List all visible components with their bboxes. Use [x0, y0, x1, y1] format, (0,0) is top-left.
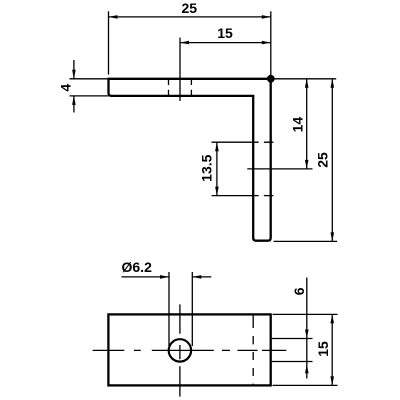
flange hole hidden top edge y=142.2	[212, 141, 274, 143]
dimension 6 (plan, right)	[291, 278, 309, 379]
svg-text:25: 25	[315, 152, 331, 168]
flange hole centerline y=168.9	[247, 168, 312, 170]
svg-text:Ø6.2: Ø6.2	[122, 259, 153, 275]
corner junction dot	[267, 75, 275, 83]
hidden hole edge left (side view)	[168, 79, 170, 96]
svg-text:6: 6	[291, 287, 307, 295]
dimension 14 (right of side view)	[290, 79, 309, 169]
extension line right corner (horizontal, to right dims)	[271, 78, 336, 80]
svg-text:14: 14	[290, 117, 306, 133]
svg-text:4: 4	[58, 84, 74, 92]
hole (plan view)	[169, 339, 191, 361]
svg-text:13.5: 13.5	[199, 154, 215, 181]
extension line plate bottom (plan, right)	[273, 384, 338, 386]
extension line hole top edge (plan, right)	[272, 338, 313, 340]
flange hole hidden bottom edge y=195.6	[212, 195, 274, 197]
dimension 15 (plan, right)	[315, 314, 334, 385]
extension line plate top (plan, right)	[273, 313, 338, 315]
dimension 25 (right height)	[315, 79, 335, 242]
bracket outline (side view L-profile)	[109, 79, 271, 241]
extension line flange bottom y=241.4	[274, 240, 338, 242]
plate outline (plan view)	[108, 314, 270, 385]
horizontal centerline (plan view)	[93, 349, 287, 351]
svg-text:15: 15	[217, 25, 233, 41]
extension line left end of bracket (vertical, up to dims)	[108, 11, 110, 74]
extension line hole bottom edge (plan, right)	[272, 361, 313, 363]
hidden bend line (plan view)	[252, 314, 254, 385]
svg-text:25: 25	[182, 0, 198, 16]
hole centerline / extension line x=180 (side view)	[179, 38, 181, 101]
svg-text:15: 15	[315, 341, 331, 357]
dimension 13.5 (flange hole, left)	[199, 142, 219, 195]
dimension 25 (top width)	[109, 0, 271, 19]
extension line right corner (vertical, up to dims)	[270, 11, 272, 79]
dimension Ø6.2 (hole)	[122, 259, 212, 346]
hidden hole edge right (side view)	[190, 79, 192, 96]
dimension 15 (top)	[180, 25, 271, 44]
dimension 4 (thickness, left)	[58, 60, 109, 113]
vertical centerline through hole (plan view)	[179, 304, 181, 396]
